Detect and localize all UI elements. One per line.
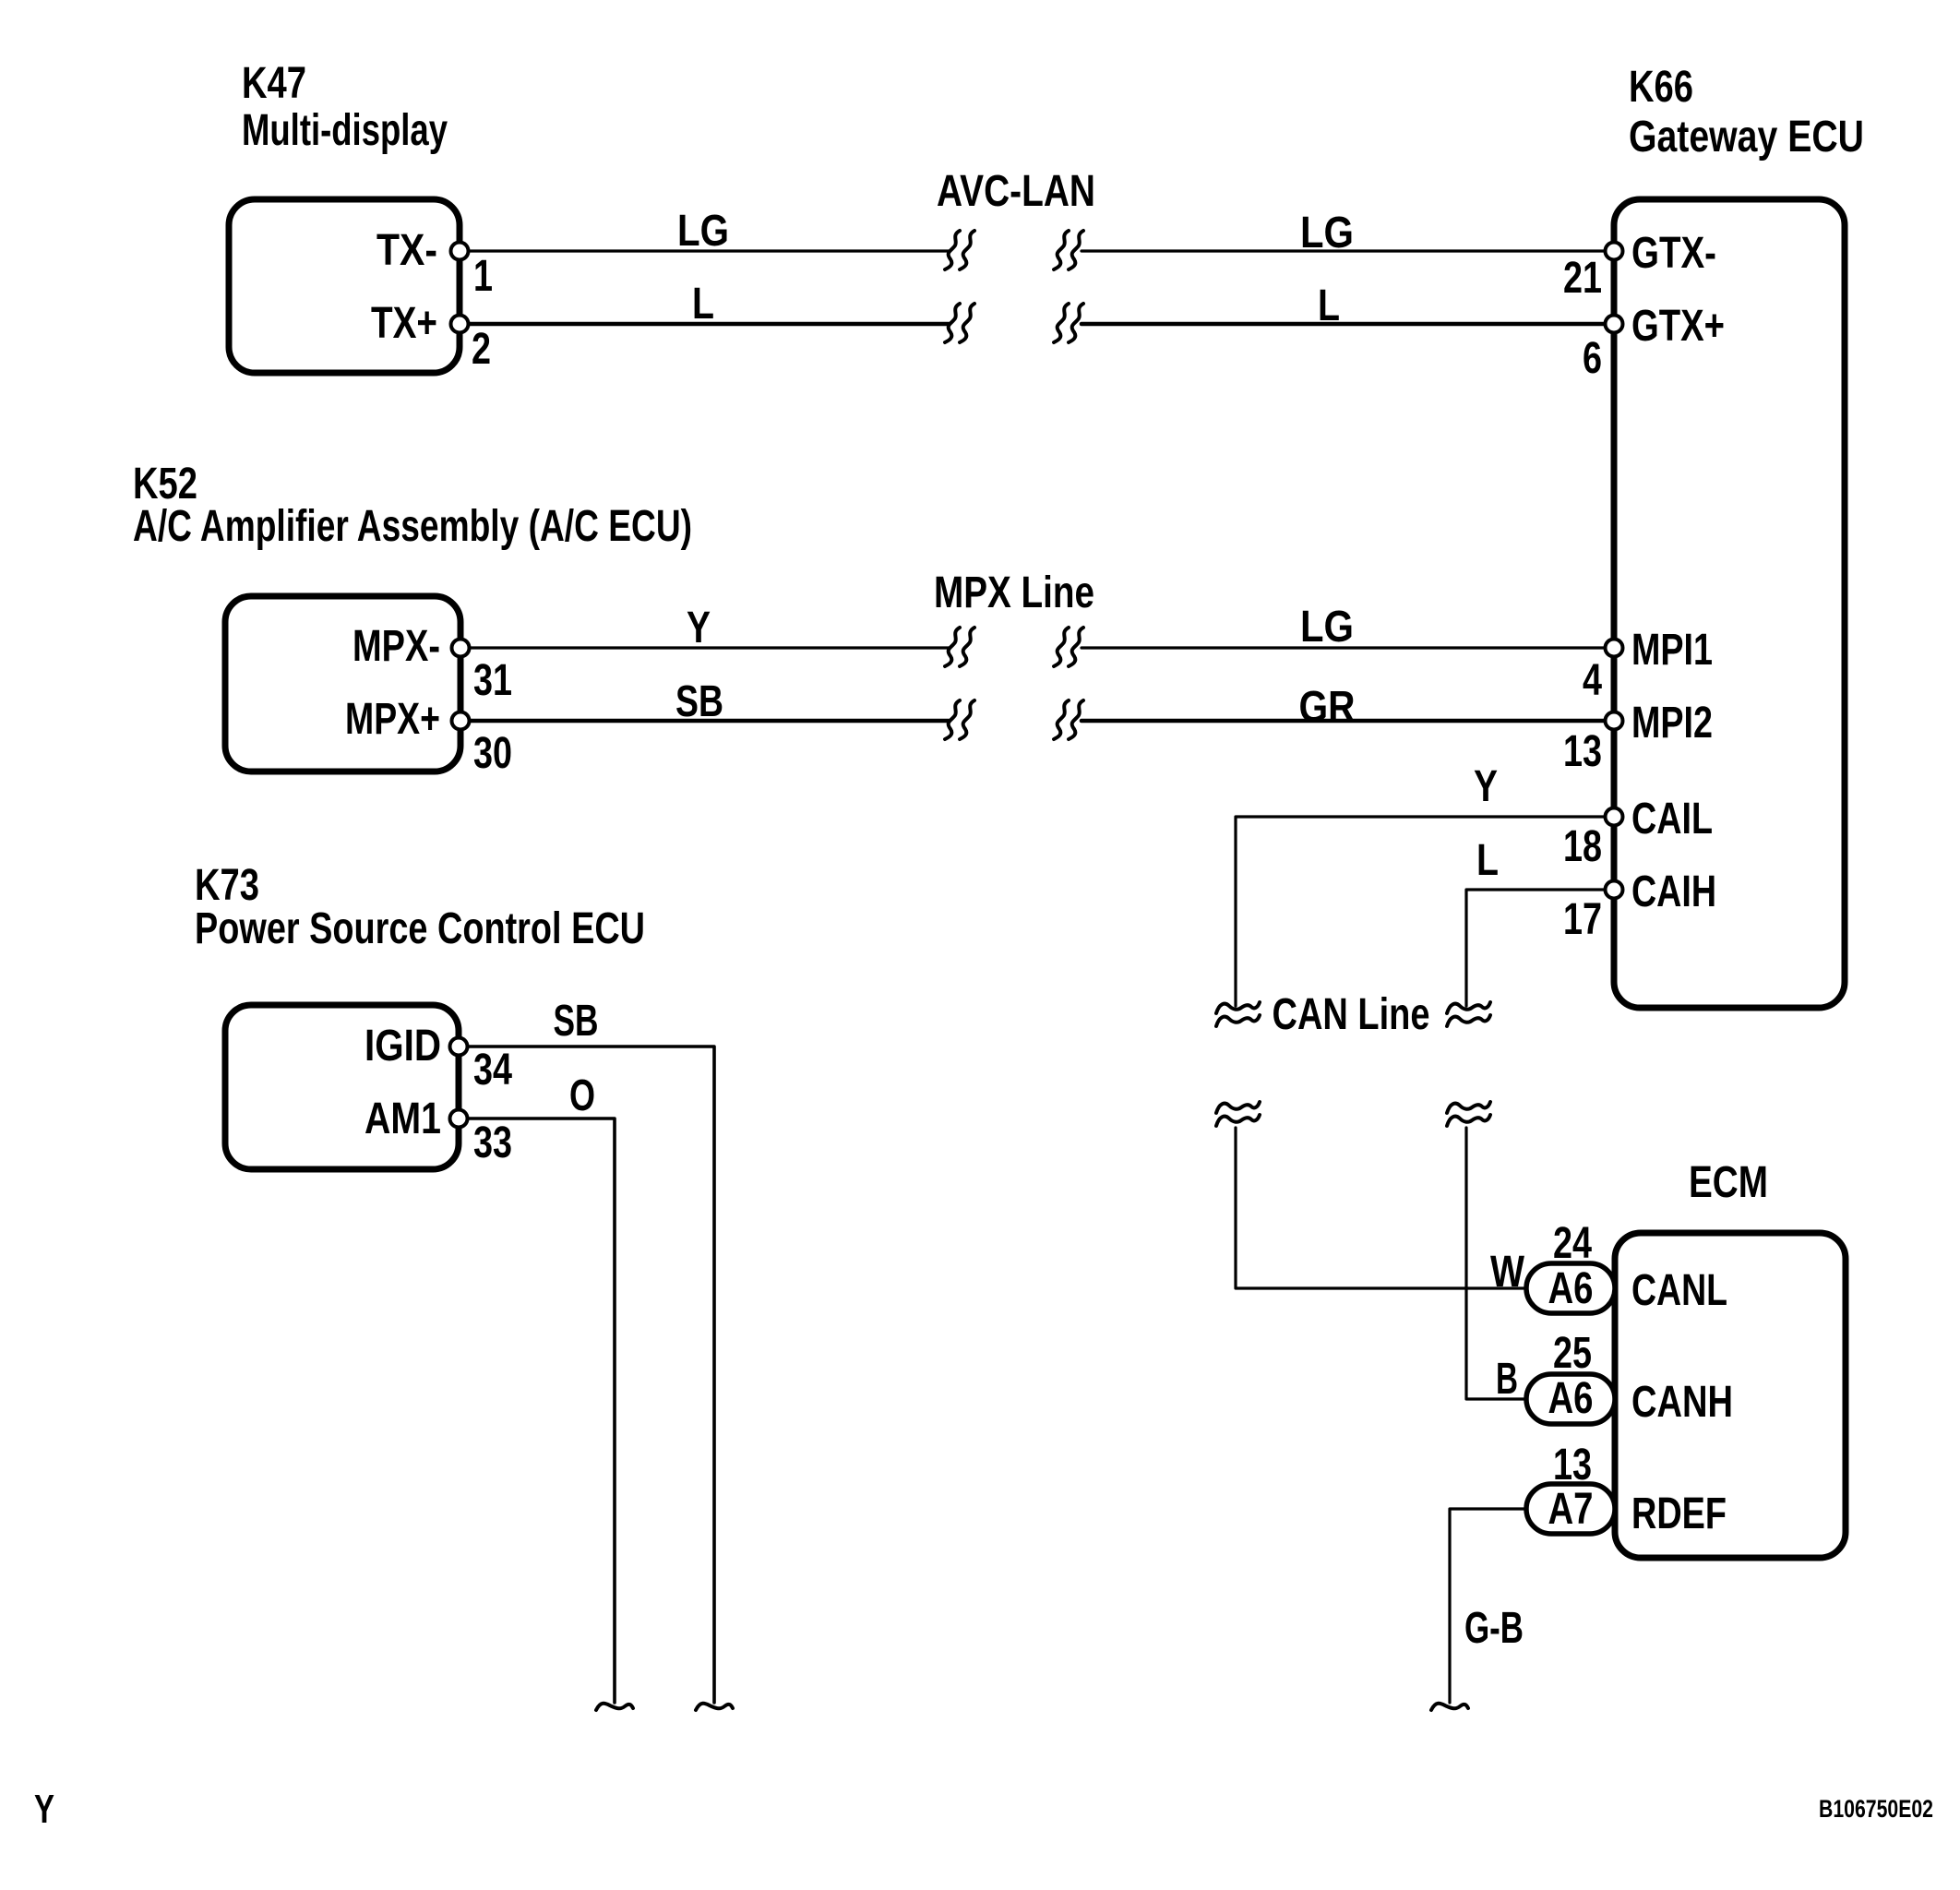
vertical break symbol (L wire)	[1447, 1002, 1490, 1013]
connector K73 Power Source Control ECU box	[225, 1005, 459, 1169]
svg-text:B: B	[1496, 1355, 1518, 1404]
pin circle K66-18 CAIL	[1606, 808, 1623, 826]
svg-text:AM1: AM1	[365, 1095, 441, 1143]
pin circle K73-34 IGID	[450, 1038, 468, 1056]
pin circle K52-30 MPX+	[452, 712, 470, 730]
svg-text:13: 13	[1563, 727, 1602, 776]
pin circle K66-17 CAIH	[1606, 881, 1623, 899]
svg-text:24: 24	[1553, 1219, 1592, 1268]
svg-text:6: 6	[1583, 334, 1602, 383]
wire break symbol	[1054, 700, 1069, 739]
connector K47 Multi-display box	[229, 199, 460, 373]
svg-text:SB: SB	[554, 997, 599, 1046]
ECM box	[1615, 1233, 1846, 1558]
svg-text:MPI1: MPI1	[1631, 626, 1713, 675]
svg-text:LG: LG	[677, 207, 729, 256]
wire CANH B: vertical down, corner, horizontal to ECM A6	[1466, 1128, 1526, 1399]
svg-text:A6: A6	[1548, 1374, 1594, 1423]
svg-text:B106750E02: B106750E02	[1819, 1795, 1933, 1823]
svg-text:Y: Y	[687, 604, 711, 652]
wire end break (SB)	[696, 1704, 733, 1710]
svg-text:GTX-: GTX-	[1631, 229, 1716, 278]
svg-text:Multi-display: Multi-display	[242, 106, 448, 155]
svg-text:RDEF: RDEF	[1631, 1489, 1727, 1538]
svg-text:17: 17	[1563, 895, 1602, 944]
svg-text:LG: LG	[1300, 603, 1354, 652]
vertical break symbol (Y wire)	[1216, 1002, 1260, 1013]
svg-text:13: 13	[1553, 1441, 1592, 1489]
wire RDEF G-B: horizontal from A7, corner, vertical down	[1450, 1509, 1526, 1703]
wire break to GTX-, LG	[1082, 249, 1614, 252]
svg-text:K47: K47	[242, 59, 306, 108]
svg-text:A/C Amplifier Assembly (A/C EC: A/C Amplifier Assembly (A/C ECU)	[133, 502, 692, 551]
svg-text:Y: Y	[34, 1787, 54, 1832]
wire break to GTX+, L	[1082, 322, 1614, 327]
svg-text:SB: SB	[675, 677, 723, 726]
wire break symbol	[945, 628, 960, 666]
svg-text:31: 31	[473, 656, 512, 705]
svg-text:O: O	[569, 1071, 595, 1120]
svg-text:MPX Line: MPX Line	[934, 568, 1094, 617]
svg-text:CAIL: CAIL	[1631, 795, 1713, 843]
vertical break symbol (CANL wire resume)	[1216, 1102, 1260, 1113]
wire break symbol	[1054, 231, 1069, 269]
svg-text:CAIH: CAIH	[1631, 867, 1716, 916]
pin circle K66-6 GTX+	[1606, 316, 1623, 333]
wire break symbol	[945, 700, 960, 739]
svg-text:MPX+: MPX+	[345, 695, 440, 744]
svg-text:Gateway ECU: Gateway ECU	[1629, 113, 1864, 161]
wire end break (O)	[596, 1704, 633, 1710]
svg-text:33: 33	[473, 1118, 512, 1167]
vertical break symbol (CANH wire resume)	[1447, 1102, 1490, 1113]
svg-text:GTX+: GTX+	[1631, 302, 1725, 351]
svg-text:Power Source Control ECU: Power Source Control ECU	[195, 904, 645, 953]
svg-text:GR: GR	[1299, 683, 1356, 732]
wire AM1 O: horizontal, corner, vertical down	[468, 1118, 615, 1703]
wire break symbol	[1054, 304, 1069, 342]
gateway ECU K66 box	[1614, 199, 1845, 1008]
svg-text:MPX-: MPX-	[353, 622, 440, 671]
wire TX- to break, LG	[469, 249, 949, 252]
svg-text:1: 1	[473, 252, 493, 301]
svg-text:K66: K66	[1629, 63, 1693, 112]
svg-text:2: 2	[472, 325, 491, 374]
pin circle K73-33 AM1	[450, 1110, 468, 1128]
svg-text:CANL: CANL	[1631, 1266, 1727, 1315]
wire TX+ to break, L	[469, 322, 949, 327]
pin circle K66-4 MPI1	[1606, 640, 1623, 657]
svg-text:25: 25	[1553, 1329, 1592, 1378]
pin circle K66-13 MPI2	[1606, 712, 1623, 730]
wire break to MPI1, LG	[1082, 646, 1614, 649]
svg-text:L: L	[1318, 281, 1340, 330]
svg-text:G-B: G-B	[1464, 1604, 1524, 1653]
svg-text:W: W	[1490, 1248, 1525, 1297]
pin oval A7 RDEF	[1526, 1484, 1615, 1534]
svg-text:ECM: ECM	[1689, 1158, 1768, 1207]
pin oval A6 CANL	[1526, 1263, 1615, 1313]
svg-text:Y: Y	[1474, 762, 1498, 811]
svg-text:L: L	[692, 280, 714, 329]
svg-text:K73: K73	[195, 861, 259, 910]
svg-text:4: 4	[1583, 656, 1602, 705]
pin circle K47-1 TX-	[451, 243, 469, 260]
wire end break (G-B)	[1431, 1704, 1468, 1710]
svg-text:MPI2: MPI2	[1631, 699, 1713, 748]
pin circle K52-31 MPX-	[452, 640, 470, 657]
wire break symbol	[945, 231, 960, 269]
wire break symbol	[1054, 628, 1069, 666]
wire IGID SB: horizontal, corner, vertical down	[468, 1047, 714, 1703]
svg-text:TX-: TX-	[376, 226, 437, 275]
pin circle K47-2 TX+	[451, 316, 469, 333]
wire break to MPI2, GR	[1082, 719, 1614, 724]
svg-text:TX+: TX+	[371, 299, 437, 348]
svg-text:34: 34	[473, 1046, 512, 1095]
connector K52 A/C Amplifier box	[225, 596, 460, 772]
wire CANL W: vertical down, corner, horizontal to ECM A6	[1236, 1128, 1526, 1288]
svg-text:A7: A7	[1548, 1485, 1594, 1534]
svg-text:CANH: CANH	[1631, 1378, 1733, 1427]
svg-text:18: 18	[1563, 822, 1602, 871]
svg-text:CAN Line: CAN Line	[1273, 990, 1430, 1039]
svg-text:A6: A6	[1548, 1264, 1594, 1313]
svg-text:21: 21	[1563, 254, 1602, 303]
wire MPX- to break, Y	[470, 646, 949, 649]
svg-text:30: 30	[473, 729, 512, 778]
svg-text:AVC-LAN: AVC-LAN	[937, 167, 1095, 216]
wire MPX+ to break, SB	[470, 719, 949, 724]
wire CAIH L: horizontal, corner, vertical down to CAN break	[1466, 890, 1614, 1006]
svg-text:LG: LG	[1300, 209, 1354, 257]
pin circle K66-21 GTX-	[1606, 243, 1623, 260]
pin oval A6 CANH	[1526, 1374, 1615, 1424]
svg-text:IGID: IGID	[365, 1022, 441, 1071]
wire break symbol	[945, 304, 960, 342]
wire CAIL Y: horizontal, corner, vertical down to CAN break	[1236, 817, 1614, 1006]
svg-text:L: L	[1476, 836, 1499, 885]
